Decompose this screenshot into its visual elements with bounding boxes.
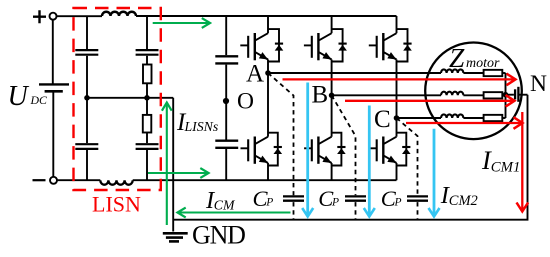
svg-text:CM1: CM1 xyxy=(491,159,521,175)
svg-text:N: N xyxy=(530,71,547,97)
svg-text:LISN: LISN xyxy=(92,192,141,217)
svg-text:O: O xyxy=(237,89,254,115)
svg-text:LISNs: LISNs xyxy=(184,119,219,134)
svg-text:DC: DC xyxy=(30,93,48,107)
svg-text:motor: motor xyxy=(466,56,500,71)
svg-text:U: U xyxy=(8,81,30,112)
svg-text:C: C xyxy=(374,106,391,133)
svg-text:B: B xyxy=(312,82,329,109)
svg-text:P: P xyxy=(265,196,273,208)
svg-text:P: P xyxy=(394,196,402,208)
svg-text:CM2: CM2 xyxy=(449,193,478,209)
svg-text:P: P xyxy=(331,196,339,208)
svg-text:A: A xyxy=(246,61,264,88)
svg-text:GND: GND xyxy=(192,221,245,250)
svg-text:Z: Z xyxy=(449,42,465,73)
svg-text:CM: CM xyxy=(214,198,236,213)
